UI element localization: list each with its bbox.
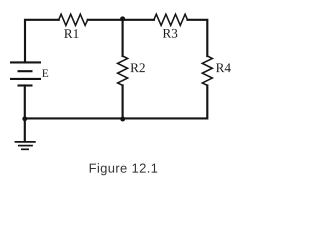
resistor R3 [154,14,188,25]
wire: R4 bottom lead to bottom-right corner to node B [123,85,208,118]
ground [15,142,36,149]
wire: R3 to top-right corner down to R4 [188,20,208,56]
wire: node C down to ground [24,118,26,140]
label R2 [131,63,145,72]
resistor R1 [59,14,88,25]
label E (battery) [42,69,48,76]
node A (junction of R1, R2, R3) [120,16,125,21]
wire: node A down to R2 top lead [122,20,124,56]
label R4 [216,63,231,72]
wire: R2 bottom lead to node B [122,85,124,118]
wire: node A to R3 left lead [123,19,154,21]
label R1 [64,29,78,38]
caption Figure 12.1 [90,163,158,175]
node B (junction of R2 and bottom rail) [120,117,125,122]
wire: battery negative terminal down to node C [24,86,26,119]
wire: node B to node C (bottom rail) [25,117,123,119]
battery E plates [10,62,41,85]
node C (junction of battery negative and ground) [22,116,27,121]
resistor R4 [202,56,212,85]
label R3 [163,29,178,38]
resistor R2 [118,56,128,85]
wire: battery positive terminal up and right to R1 (top-left corner) [25,20,59,63]
wire: R1 right lead to node A [88,19,123,21]
